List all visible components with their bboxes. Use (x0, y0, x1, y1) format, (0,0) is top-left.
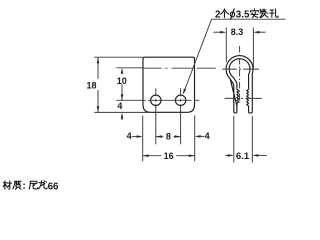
svg-text:10: 10 (117, 76, 127, 86)
hole right center line vertical (180, 88, 182, 144)
material note 质 (13, 181, 21, 189)
hole left (151, 95, 161, 105)
dim 4 bottom-left arrow (132, 136, 137, 138)
svg-text:4: 4 (205, 131, 210, 141)
svg-text:3.5: 3.5 (236, 9, 250, 20)
plate left extension below (142, 116, 144, 162)
dim 18 line (97, 57, 99, 112)
plate right extension below (194, 115, 196, 161)
svg-text:8.3: 8.3 (231, 27, 244, 37)
label glyph 安 (251, 9, 259, 18)
svg-text:4: 4 (117, 101, 122, 111)
horizontal reference center line through plate (116, 67, 216, 69)
dim 18 arrows (97, 57, 100, 63)
hole right (175, 95, 185, 105)
dim 10 arrows (121, 68, 124, 74)
side view horizontal center line at legs (225, 97, 262, 99)
svg-text:4: 4 (127, 131, 132, 141)
dim 18 extension top (94, 56, 143, 58)
leader arrowhead (183, 89, 186, 95)
label glyph 孔 (270, 9, 278, 17)
dim 4 vertical bottom arrow (121, 113, 124, 119)
dim 10 line (121, 84, 123, 100)
dim 8.3 line arrows (213, 31, 221, 33)
svg-text:66: 66 (48, 181, 59, 192)
material note 龙 (39, 181, 47, 189)
dim 8 line and arrows (156, 136, 181, 138)
hole horizontal center line (116, 99, 199, 101)
side view horizontal center line at ring (222, 68, 259, 70)
svg-text:8: 8 (166, 132, 171, 142)
side view outer contour (226, 56, 253, 113)
dim 6.1 arrows (225, 154, 228, 156)
plate outline (front view) (143, 57, 195, 112)
side view vertical center line (239, 46, 241, 103)
dim 4 bottom-right arrow (195, 135, 201, 138)
label phi (230, 9, 234, 19)
svg-text:6.1: 6.1 (236, 151, 250, 162)
dim 6.1 extensions (233, 116, 235, 163)
material note colon (23, 184, 24, 185)
side view right zigzag (247, 88, 249, 106)
label underline (212, 18, 286, 20)
dim 16 line (143, 155, 195, 157)
leader line to hole (184, 19, 212, 93)
hole left center line vertical (155, 88, 157, 144)
material note 尼 (29, 181, 38, 189)
svg-text:16: 16 (164, 151, 174, 161)
svg-text:18: 18 (86, 80, 96, 90)
label glyph 个 (221, 9, 229, 18)
dim 18 extension bottom (94, 111, 150, 113)
svg-text:2: 2 (215, 9, 221, 20)
side view left zigzag (237, 88, 239, 106)
dim 8.3 extensions (225, 28, 227, 63)
material note 材 (3, 181, 12, 189)
label glyph 装 (260, 9, 268, 18)
